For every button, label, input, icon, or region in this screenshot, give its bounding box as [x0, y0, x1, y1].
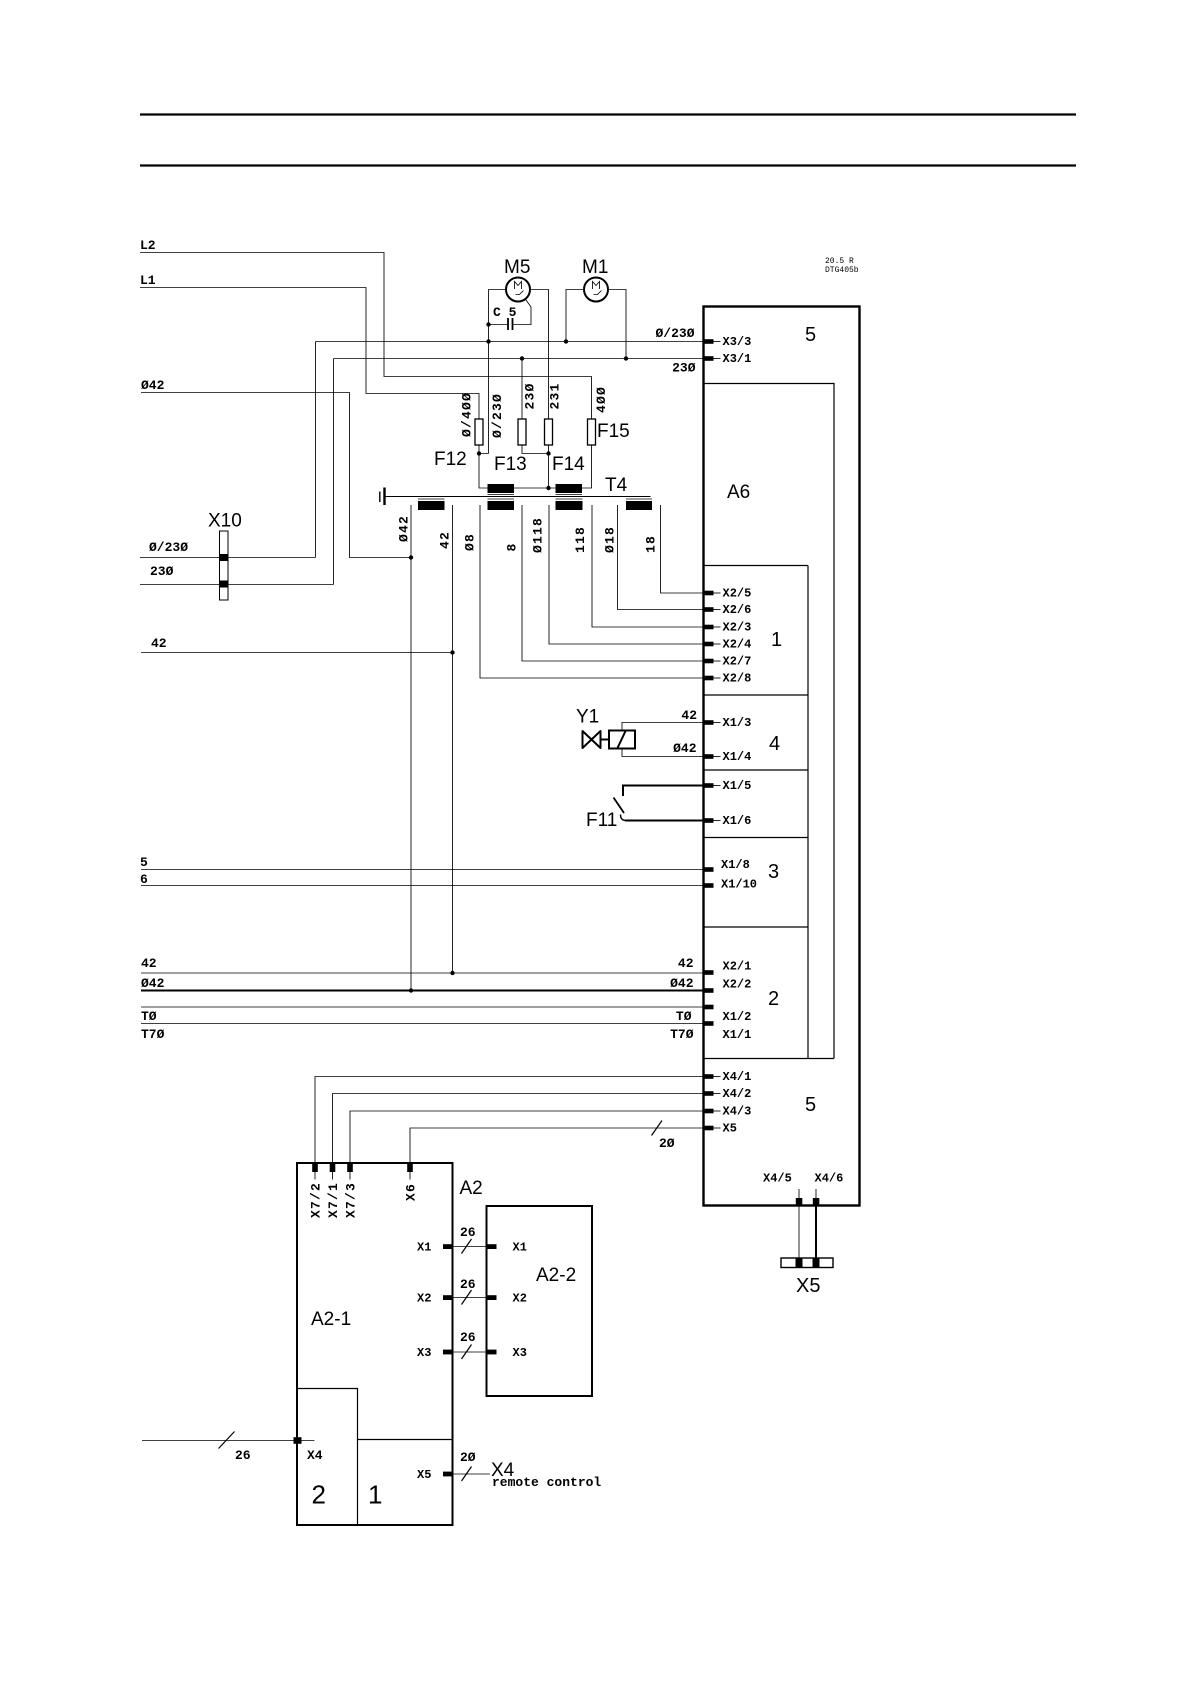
wire 0/230 through X10 rising to main net	[140, 342, 316, 558]
svg-text:X4/6: X4/6	[815, 1172, 844, 1186]
svg-text:8: 8	[505, 542, 520, 551]
transformer T4 core	[385, 496, 651, 498]
svg-text:26: 26	[460, 1277, 476, 1292]
pin X2/5	[704, 591, 714, 596]
motor M1 left lead	[566, 290, 584, 342]
svg-text:X1/4: X1/4	[723, 750, 752, 764]
svg-text:X2/5: X2/5	[723, 587, 752, 601]
wire X1/5	[623, 786, 704, 797]
svg-text:X7/3: X7/3	[344, 1182, 359, 1218]
svg-text:Ø18: Ø18	[603, 526, 618, 553]
wire L2 to fuse F15	[140, 253, 592, 420]
wire L1 to fuse F12	[140, 288, 479, 420]
A6 box 2 bottom	[704, 1058, 835, 1060]
wire tap 42 down to X2/1 net	[452, 505, 454, 973]
svg-text:Ø42: Ø42	[670, 976, 694, 991]
svg-text:Y1: Y1	[576, 707, 599, 728]
pin X1/8	[704, 867, 714, 872]
wire X4/2 to A2 X7/1	[333, 1094, 704, 1164]
svg-text:X2/6: X2/6	[723, 603, 752, 617]
svg-text:20.5 R: 20.5 R	[825, 257, 854, 266]
svg-text:X7/1: X7/1	[326, 1182, 341, 1218]
svg-text:X1/6: X1/6	[723, 814, 752, 828]
svg-text:M1: M1	[582, 257, 608, 278]
junction dot C5 lead	[486, 322, 490, 326]
net 0/230 main horizontal to X3/3	[316, 341, 704, 343]
svg-text:Ø/23Ø: Ø/23Ø	[490, 393, 505, 438]
wire X4/3 to A2 X7/3	[350, 1111, 704, 1163]
motor M5 circle	[506, 278, 530, 302]
motor M1 inner symbol	[593, 282, 602, 295]
svg-text:X4/1: X4/1	[723, 1070, 752, 1084]
bus slash X1	[462, 1239, 472, 1254]
wire 230 through X10 rising to main net	[140, 359, 334, 585]
svg-text:X1/10: X1/10	[721, 878, 757, 892]
svg-text:T7Ø: T7Ø	[141, 1027, 165, 1042]
pin X3/1	[704, 356, 714, 361]
bus slash on X5 wire	[652, 1121, 663, 1136]
wire A2 X5 to X4 remote	[454, 1473, 491, 1475]
svg-text:X7/2: X7/2	[309, 1182, 324, 1218]
svg-text:26: 26	[460, 1225, 476, 1240]
svg-text:F14: F14	[552, 454, 585, 475]
wire tap 0118 to X2/4	[549, 505, 704, 644]
svg-text:remote control: remote control	[492, 1475, 601, 1490]
wire net 042 to X2/2	[141, 990, 704, 992]
svg-text:T4: T4	[605, 475, 628, 496]
svg-text:X1: X1	[417, 1241, 431, 1255]
transformer primary winding left	[488, 484, 515, 493]
wire A2 X1 to A2-2 X1	[454, 1246, 487, 1248]
svg-text:X1/1: X1/1	[723, 1028, 752, 1042]
svg-text:42: 42	[681, 708, 697, 723]
svg-text:TØ: TØ	[676, 1009, 692, 1024]
wire tap 042 down to X2/2 net	[410, 505, 412, 991]
svg-text:Ø42: Ø42	[397, 515, 412, 542]
solenoid Y1 coil	[609, 731, 635, 749]
A2-2 pin X3	[487, 1350, 497, 1355]
wire X1/6	[625, 820, 704, 822]
switch F11 contact hook	[621, 815, 627, 821]
A6 pin X4/6	[815, 1189, 817, 1198]
svg-text:DTG405b: DTG405b	[825, 266, 859, 275]
wire tap 118 to X2/3	[592, 505, 704, 627]
svg-text:42: 42	[141, 956, 157, 971]
A2 block outline	[297, 1163, 453, 1525]
svg-text:4: 4	[769, 733, 780, 755]
A2-2 block outline	[487, 1206, 593, 1396]
pin X4/2	[704, 1091, 714, 1096]
wire tap 018 to X2/6	[618, 505, 704, 610]
pin X4/3	[704, 1109, 714, 1114]
A2 pin X7/2	[312, 1163, 318, 1172]
connector X5 contact right	[813, 1258, 820, 1268]
motor M5 inner symbol	[515, 282, 524, 295]
wire net 6 to X1/10	[141, 885, 704, 887]
pin X3/3	[704, 339, 714, 344]
wire X1/3 to solenoid	[622, 723, 704, 732]
A6 box 3 top	[704, 837, 809, 839]
svg-text:X2/7: X2/7	[723, 655, 752, 669]
wire tap 8 to X2/7	[522, 505, 704, 661]
connector X5 body	[781, 1258, 833, 1268]
svg-text:X4/2: X4/2	[723, 1087, 752, 1101]
transformer primary winding right	[556, 484, 583, 493]
svg-text:1: 1	[368, 1480, 382, 1510]
bus slash X2	[462, 1290, 472, 1305]
A6 inner boxes right edge	[807, 566, 809, 1059]
svg-text:Ø42: Ø42	[673, 741, 697, 756]
A2-1 inner box 2	[297, 1389, 358, 1526]
svg-text:1: 1	[771, 629, 782, 651]
fuse F15 body	[588, 419, 596, 445]
svg-text:F13: F13	[494, 454, 527, 475]
connector X10 contact 0/230	[219, 554, 229, 561]
pin X1/5	[704, 783, 714, 788]
svg-text:X2: X2	[513, 1292, 527, 1306]
svg-text:231: 231	[548, 382, 563, 409]
bus slash X5	[462, 1467, 472, 1482]
junction dot primary centre tap	[546, 486, 550, 490]
pin X1/1	[704, 1021, 714, 1026]
fuse F14 bottom lead	[548, 445, 550, 488]
svg-text:26: 26	[235, 1448, 251, 1463]
transformer secondary winding 018/18	[626, 501, 652, 510]
svg-text:T7Ø: T7Ø	[670, 1027, 694, 1042]
wire A2 X3 to A2-2 X3	[454, 1351, 487, 1353]
svg-text:X2/8: X2/8	[723, 672, 752, 686]
A6 block outline	[704, 307, 860, 1206]
net 230 main horizontal to X3/1	[334, 358, 704, 360]
wire tap 08 to X2/8	[480, 505, 704, 678]
svg-text:X5: X5	[723, 1122, 737, 1136]
svg-text:X1/3: X1/3	[723, 716, 752, 730]
connector X10 contact 230	[219, 581, 229, 588]
junction dot tap042 on X2/2 wire	[409, 988, 413, 992]
ground symbol at core	[383, 488, 385, 506]
motor M5 right lead to F14	[530, 290, 549, 420]
svg-text:Ø/4ØØ: Ø/4ØØ	[460, 392, 475, 437]
fuse F12 bottom lead and 0/230 riser	[479, 342, 489, 489]
A2 pin X7/3	[347, 1163, 353, 1172]
svg-text:42: 42	[438, 531, 453, 549]
svg-text:X3/3: X3/3	[723, 335, 752, 349]
A6 box X1/5 divider	[704, 769, 809, 771]
svg-text:5: 5	[805, 1094, 816, 1116]
wire net 42 to X2/1	[141, 972, 704, 974]
svg-text:X2/4: X2/4	[723, 638, 752, 652]
pin X2/7	[704, 659, 714, 664]
bus slash 26	[219, 1432, 235, 1449]
wire X4/1 to A2 X7/2	[315, 1077, 704, 1164]
wire X4/6 to X5 connector	[815, 1206, 817, 1259]
transformer secondary winding 0118/118	[556, 501, 583, 510]
junction dot M1 leg on 0/230	[564, 339, 568, 343]
A2-1 inner box 1 top	[358, 1439, 453, 1441]
connector X10 body	[220, 531, 229, 600]
svg-text:2: 2	[768, 988, 779, 1010]
pin X2/8	[704, 676, 714, 681]
svg-text:5: 5	[805, 324, 816, 346]
motor M1 right lead	[608, 290, 626, 359]
svg-text:X5: X5	[796, 1275, 820, 1297]
junction dot F13/F14 leads	[546, 451, 550, 455]
pin X5	[704, 1126, 714, 1131]
svg-text:X2/1: X2/1	[723, 960, 752, 974]
svg-text:2: 2	[312, 1480, 326, 1510]
junction dot M5 leg on 0/230	[486, 339, 490, 343]
svg-text:118: 118	[573, 526, 588, 553]
wire net T0 to X1/2	[141, 1006, 704, 1008]
svg-text:X3: X3	[417, 1346, 431, 1360]
A2 pin X6	[407, 1163, 413, 1172]
svg-text:F12: F12	[434, 449, 467, 470]
svg-text:6: 6	[140, 872, 148, 887]
junction dot M1 leg on 230	[624, 356, 628, 360]
svg-text:Ø8: Ø8	[463, 533, 478, 551]
wire net 5 to X1/8	[141, 869, 704, 871]
svg-text:4ØØ: 4ØØ	[594, 386, 609, 413]
pin X2/2	[704, 988, 714, 993]
svg-text:X3: X3	[513, 1346, 527, 1360]
capacitor C5 plates	[508, 318, 513, 330]
svg-text:L2: L2	[140, 238, 156, 253]
fuse F13 riser from 230 net	[521, 359, 523, 420]
pin X1/6	[704, 818, 714, 823]
svg-text:X4/5: X4/5	[763, 1172, 792, 1186]
svg-text:C 5: C 5	[493, 305, 517, 320]
wire 26 bus into A2 X4	[142, 1440, 315, 1442]
fuse F15 bottom lead	[582, 445, 592, 488]
svg-text:42: 42	[678, 956, 694, 971]
switch F11 blade	[614, 798, 625, 814]
svg-text:2Ø: 2Ø	[659, 1136, 675, 1151]
wire net T70 to X1/1	[141, 1023, 704, 1025]
fuse F12 body	[475, 419, 483, 445]
A2 pin X7/1	[330, 1163, 336, 1172]
valve Y1 bowtie symbol	[583, 731, 610, 748]
motor M1 circle	[584, 278, 608, 302]
wire solenoid to X1/4	[622, 749, 704, 757]
fuse F13 body	[518, 419, 526, 445]
header rule bottom	[140, 164, 1076, 166]
A6 box 2 top	[704, 926, 809, 928]
junction dot 42/tap	[450, 650, 454, 654]
svg-text:L1: L1	[140, 273, 156, 288]
svg-text:Ø42: Ø42	[141, 976, 165, 991]
svg-text:X1: X1	[513, 1241, 527, 1255]
pin X4/1	[704, 1074, 714, 1079]
bus slash X3	[462, 1345, 472, 1360]
svg-text:Ø118: Ø118	[531, 517, 546, 553]
svg-text:3: 3	[768, 861, 779, 883]
svg-text:2Ø: 2Ø	[460, 1450, 476, 1465]
svg-text:42: 42	[151, 636, 167, 651]
wire X4/5 to X5 connector	[798, 1206, 800, 1259]
svg-text:A2-2: A2-2	[536, 1265, 576, 1286]
svg-text:A6: A6	[727, 482, 750, 503]
svg-text:F15: F15	[597, 421, 630, 442]
A6 pin X4/5	[798, 1189, 800, 1198]
svg-text:X2/3: X2/3	[723, 621, 752, 635]
connector X5 contact left	[796, 1258, 803, 1268]
svg-text:X2/2: X2/2	[723, 978, 752, 992]
pin X2/6	[704, 607, 714, 612]
junction dot 042/tap	[409, 555, 413, 559]
fuse F13 bottom lead	[522, 445, 549, 454]
header rule top	[140, 113, 1076, 115]
svg-text:X1/5: X1/5	[723, 779, 752, 793]
A6 box 1 top	[704, 565, 809, 567]
svg-text:X10: X10	[208, 511, 242, 532]
transformer secondary winding 042/42	[418, 501, 445, 510]
svg-text:5: 5	[140, 855, 148, 870]
svg-text:X5: X5	[417, 1468, 431, 1482]
A6 box 4 top	[704, 694, 809, 696]
svg-text:X6: X6	[404, 1183, 419, 1201]
svg-text:23Ø: 23Ø	[523, 382, 538, 409]
svg-text:X3/1: X3/1	[723, 352, 752, 366]
pin X1/10	[704, 883, 714, 888]
svg-text:X1/8: X1/8	[721, 858, 750, 872]
pin X1/4	[704, 754, 714, 759]
motor M5 left lead	[489, 290, 507, 342]
svg-text:26: 26	[460, 1330, 476, 1345]
A6 inner tall box	[704, 384, 835, 1059]
pin X2/3	[704, 625, 714, 630]
wire tap 18 to X2/5	[661, 505, 704, 593]
A2-2 pin X1	[487, 1244, 497, 1249]
wire 042 from label to junction	[141, 393, 411, 558]
junction dot F13 riser on 230	[520, 356, 524, 360]
svg-text:M5: M5	[504, 257, 530, 278]
svg-text:23Ø: 23Ø	[150, 564, 174, 579]
wire 42 from label to tap junction	[141, 652, 453, 654]
A2-2 pin X2	[487, 1295, 497, 1300]
svg-text:TØ: TØ	[141, 1009, 157, 1024]
svg-text:X4/3: X4/3	[723, 1105, 752, 1119]
junction dot F12 lead	[477, 451, 481, 455]
transformer secondary winding 08/8	[488, 501, 515, 510]
svg-text:23Ø: 23Ø	[672, 361, 696, 376]
svg-text:A2-1: A2-1	[311, 1309, 351, 1330]
capacitor C5 leads	[489, 299, 532, 325]
fuse F14 body	[545, 419, 553, 445]
wire primary windings connection	[514, 487, 556, 489]
wire X5 to A2 X6	[410, 1128, 704, 1163]
svg-text:A2: A2	[460, 1178, 483, 1199]
pin X2/4	[704, 642, 714, 647]
svg-text:Ø42: Ø42	[141, 378, 165, 393]
svg-text:X2: X2	[417, 1292, 431, 1306]
pin X1/3	[704, 720, 714, 725]
svg-text:18: 18	[644, 535, 659, 553]
svg-text:Ø/23Ø: Ø/23Ø	[655, 326, 694, 341]
pin X2/1	[704, 970, 714, 975]
svg-text:X4: X4	[307, 1448, 323, 1463]
svg-text:X1/2: X1/2	[723, 1010, 752, 1024]
junction dot tap42 on X2/1 wire	[450, 971, 454, 975]
svg-text:Ø/23Ø: Ø/23Ø	[149, 540, 188, 555]
wire A2 X2 to A2-2 X2	[454, 1297, 487, 1299]
svg-text:F11: F11	[586, 810, 617, 831]
A2 pin X4	[294, 1437, 302, 1444]
pin X1/2	[704, 1005, 714, 1010]
